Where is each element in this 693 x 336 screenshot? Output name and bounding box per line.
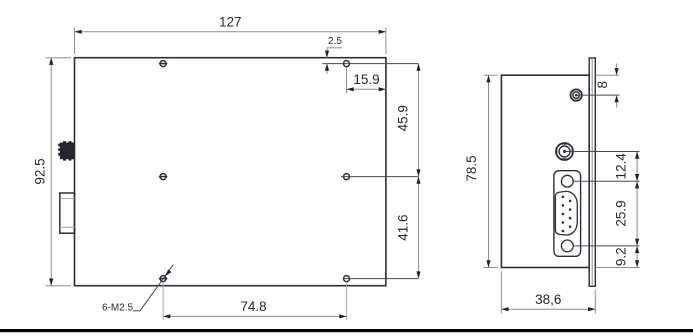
screw S6 bottom-right: [344, 276, 350, 282]
dimension 127: [75, 15, 386, 34]
svg-text:6-M2.5: 6-M2.5: [102, 303, 134, 314]
dimension 41.6: [396, 177, 421, 279]
screw S1 top-left: [159, 61, 167, 67]
dimension 8: [595, 64, 619, 108]
dimension 45.9: [396, 64, 421, 177]
DB9 hole top feature line: [573, 180, 639, 182]
dimension 25.9: [614, 181, 640, 246]
svg-text:38,6: 38,6: [535, 292, 561, 307]
svg-text:2.5: 2.5: [328, 36, 342, 47]
svg-text:78.5: 78.5: [464, 155, 479, 181]
dimension 8 extension lines: [595, 74, 619, 76]
svg-text:41.6: 41.6: [396, 214, 411, 240]
label 6-M2.5 with leader: [102, 265, 173, 314]
centerline through S4 row: [341, 176, 419, 178]
dimension 9.2: [595, 246, 639, 268]
svg-text:25.9: 25.9: [614, 200, 629, 226]
svg-text:9.2: 9.2: [614, 247, 629, 266]
svg-text:12.4: 12.4: [614, 153, 629, 180]
centerline through S6 row: [343, 278, 419, 280]
centerline through S2 row: [323, 63, 419, 65]
svg-text:74.8: 74.8: [240, 299, 266, 314]
dimension 78.5: [464, 75, 491, 267]
CN1 centerline: [576, 94, 619, 96]
dimension 15.9 extension line: [346, 68, 348, 94]
bottom border line of drawing frame: [0, 329, 693, 332]
dimension 2.5: [325, 36, 342, 74]
connector J1 (black plug on left edge): [58, 141, 74, 160]
svg-text:15.9: 15.9: [353, 72, 379, 87]
connector CN2 (SMA, middle): [556, 143, 573, 160]
svg-text:45.9: 45.9: [396, 105, 411, 131]
dimension 74.8: [163, 299, 346, 319]
dimension 12.4: [614, 152, 640, 182]
svg-text:127: 127: [219, 15, 242, 30]
screw S4 mid-right: [344, 174, 350, 180]
DB9 pins: [562, 196, 572, 233]
svg-text:92.5: 92.5: [33, 158, 48, 184]
dimension 92.5: [33, 58, 54, 286]
screw S3 mid-left: [159, 174, 167, 180]
enclosure outline (top view): [75, 58, 386, 286]
connector CN3 (DB9): [554, 171, 581, 257]
DB9 hole bottom feature line: [573, 245, 639, 247]
CN2 centerline: [565, 151, 640, 153]
dimension 74.8 extension lines: [162, 283, 164, 320]
screw S5 bottom-left: [159, 276, 167, 282]
svg-text:8: 8: [595, 81, 610, 89]
mounting flange panel: [589, 58, 595, 286]
dimension 92.5 extension lines: [46, 57, 72, 59]
dimension 127 extension lines: [74, 28, 76, 55]
connector CN1 (small coax, top): [571, 89, 582, 100]
dimension 15.9: [347, 72, 386, 91]
dimension 78.5 extension lines: [484, 74, 498, 76]
dimension 38,6: [501, 292, 595, 311]
screw S2 top-right: [344, 61, 350, 67]
connector J2 (open rectangle on left edge): [60, 193, 75, 233]
enclosure outline (side view): [501, 75, 589, 267]
dimension 38,6 extension lines: [500, 271, 502, 314]
